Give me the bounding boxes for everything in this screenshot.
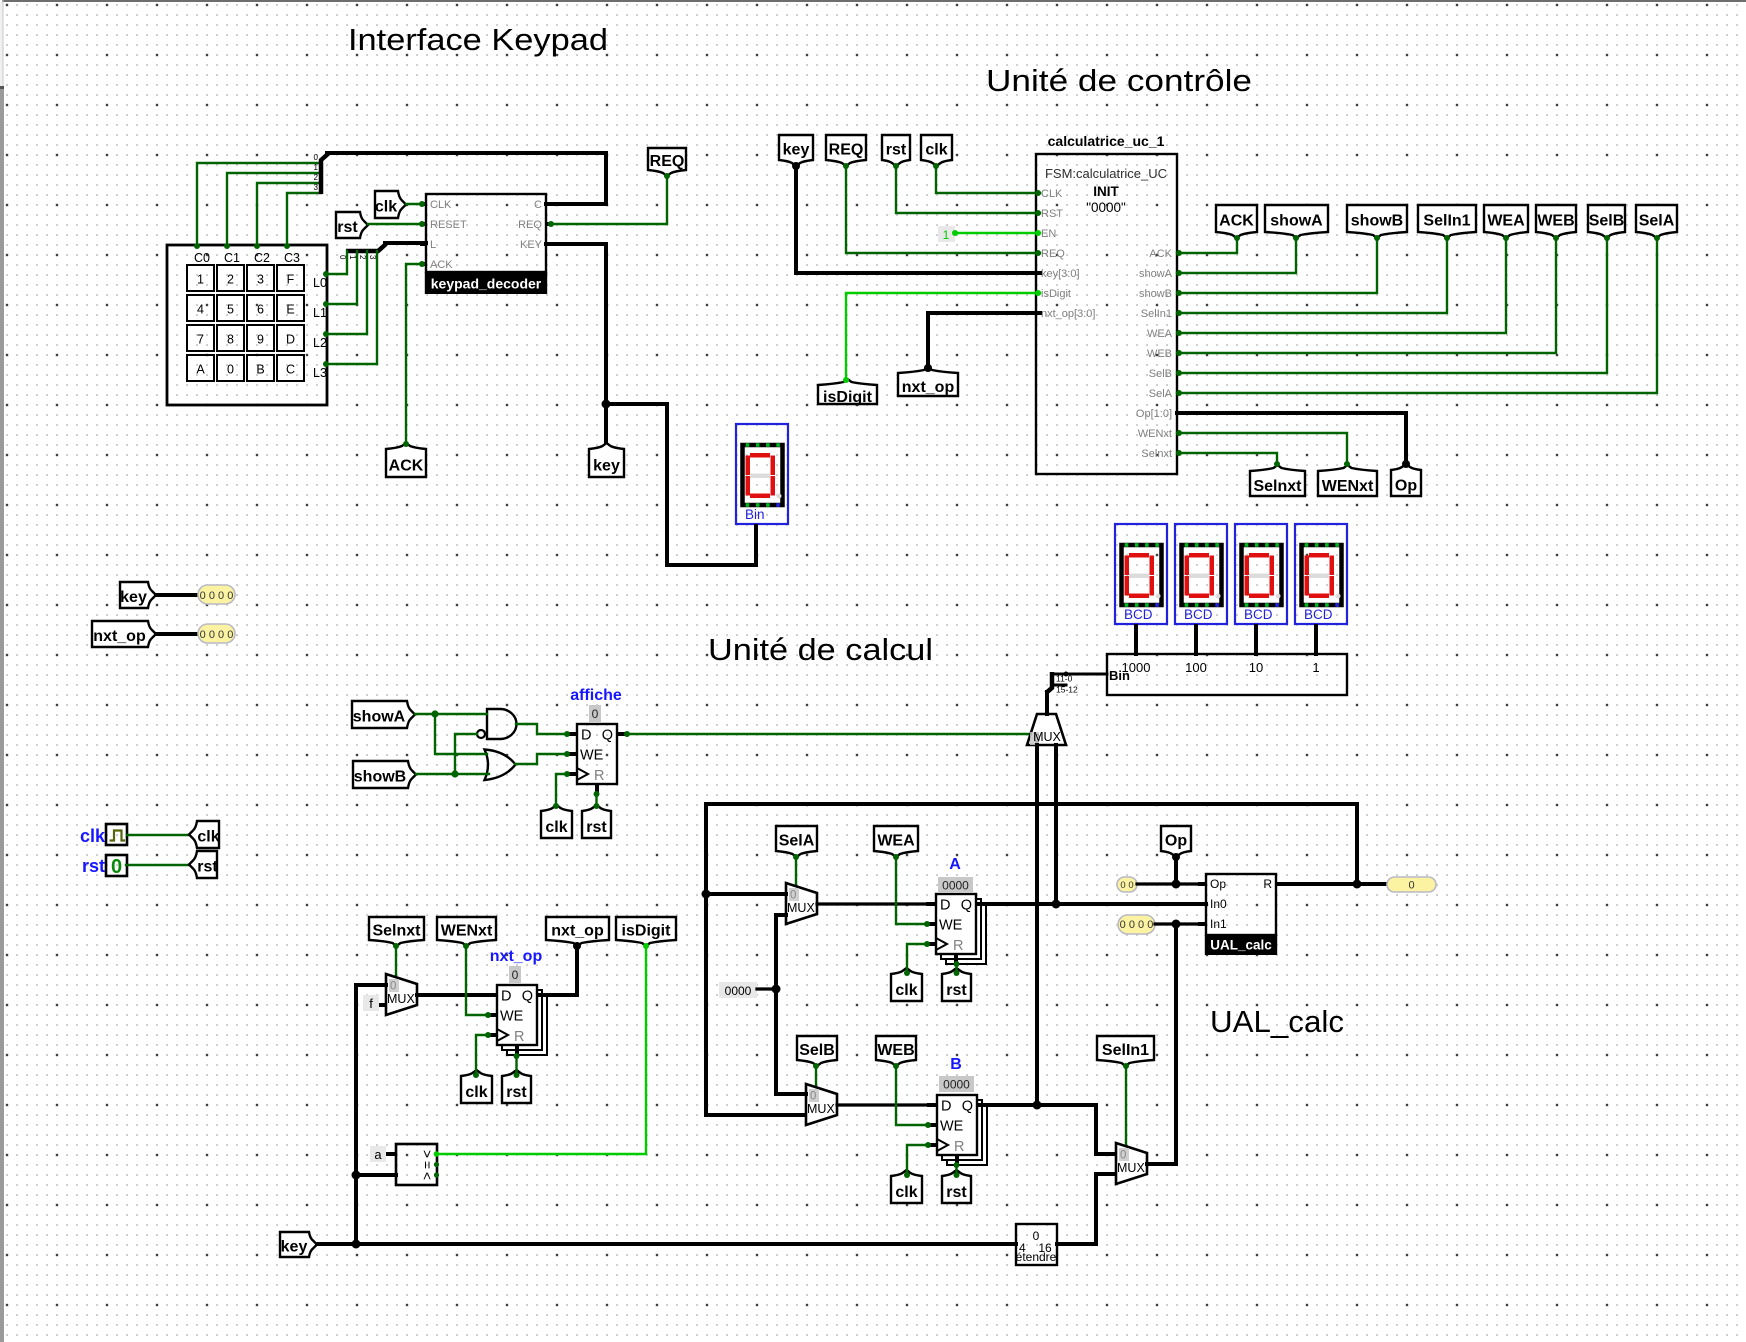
scrollbar left track [0, 0, 3, 88]
svg-text:Bin: Bin [745, 507, 765, 522]
svg-text:2: 2 [314, 173, 319, 182]
svg-text:WENxt: WENxt [1322, 478, 1374, 495]
svg-text:BCD: BCD [1184, 607, 1213, 622]
bus MUX SelIn1 out to UAL In1 [1147, 924, 1176, 1164]
svg-text:rst: rst [886, 142, 907, 159]
title Unite de calcul [708, 632, 933, 667]
FSM left pin EN [1041, 228, 1056, 240]
svg-text:R: R [1263, 877, 1272, 891]
bus MUX A out to D [817, 902, 926, 905]
FSM input dot 0 [1035, 190, 1041, 196]
wire FSM WEB out [1177, 238, 1556, 353]
svg-text:A: A [196, 363, 205, 377]
svg-text:0: 0 [592, 707, 599, 721]
keypad row label L2 [313, 336, 327, 350]
svg-text:EN: EN [1041, 228, 1056, 240]
input pin REQ (FSM) [826, 135, 866, 166]
FSM input dot 1 [1035, 210, 1041, 216]
svg-text:FSM:calculatrice_UC: FSM:calculatrice_UC [1045, 166, 1167, 181]
wire clock to clk pin [127, 834, 188, 836]
output pin clk (source) [189, 821, 220, 848]
svg-text:0: 0 [390, 981, 396, 993]
constant a stub [386, 1152, 396, 1156]
svg-text:clk: clk [197, 829, 219, 846]
svg-text:Q: Q [522, 989, 533, 1005]
svg-text:ACK: ACK [430, 259, 453, 271]
wire column C1 to splitter [227, 173, 321, 245]
UAL pin Op [1210, 877, 1226, 891]
wire WENxt to nxt_op WE [466, 946, 487, 1015]
junction showA [431, 710, 438, 717]
keypad_decoder pin C [534, 199, 542, 211]
comparator out eq dot [434, 1162, 439, 1167]
FSM right pin SelA [1149, 388, 1173, 400]
keypad_decoder pin CLK [430, 199, 452, 211]
FSM right pin Op[1:0] [1136, 408, 1172, 420]
register affiche [567, 724, 627, 794]
pin dot REQ fsm [843, 163, 849, 169]
dot B R [954, 1162, 960, 1168]
svg-text:R: R [594, 768, 604, 784]
wire rst to affiche R [595, 794, 597, 805]
svg-text:MUX: MUX [387, 992, 415, 1006]
svg-text:Selnxt: Selnxt [1253, 478, 1302, 495]
FSM left pin isDigit [1041, 288, 1071, 300]
constant 0 source (rst) [106, 855, 127, 878]
svg-text:nxt_op: nxt_op [93, 628, 146, 645]
input pin rst (affiche) [582, 805, 611, 838]
output pin WENxt (calc) [437, 917, 496, 946]
svg-text:SelB: SelB [1589, 213, 1625, 230]
pin dot nxt_op calc [573, 942, 581, 950]
svg-text:Selnxt: Selnxt [1141, 448, 1172, 460]
bus loop to MUX A in0 [706, 892, 786, 896]
probe In1 0000 [1118, 915, 1155, 934]
svg-text:Selnxt: Selnxt [372, 923, 421, 940]
7-segment display BCD2 [1235, 524, 1287, 624]
svg-text:BCD: BCD [1124, 607, 1153, 622]
svg-text:clk: clk [925, 142, 947, 159]
bus FSM Op[1:0] out [1177, 413, 1406, 464]
svg-text:1: 1 [197, 273, 204, 287]
svg-text:9: 9 [257, 333, 264, 347]
output pin Selnxt (FSM) [1250, 465, 1305, 496]
bus nxt_op Q to pin [547, 946, 577, 995]
svg-text:0: 0 [1120, 1150, 1126, 1162]
FSM output dot Selnxt [1176, 450, 1182, 456]
junction splitter branch [1064, 672, 1069, 677]
etendre label 4 [1019, 1241, 1026, 1255]
keypad button D [277, 325, 304, 351]
FSM right pin Selnxt [1141, 448, 1172, 460]
wire rst to decoder RESET [368, 223, 421, 225]
keypad button C [277, 355, 304, 381]
svg-text:0: 0 [111, 856, 122, 878]
svg-text:C: C [286, 363, 295, 377]
wire affiche Q to calc MUX select [627, 733, 1029, 735]
svg-text:D: D [940, 898, 950, 914]
FSM calculatrice_uc_1 body [1036, 154, 1177, 474]
junction key comparator [352, 1171, 361, 1180]
input pin key (FSM) [779, 135, 813, 166]
comparator out gt dot [434, 1151, 440, 1157]
keypad button F [277, 265, 304, 291]
svg-text:C: C [534, 199, 542, 211]
svg-text:showB: showB [1351, 213, 1403, 230]
svg-text:C0: C0 [194, 251, 210, 265]
keypad button A [187, 355, 214, 381]
wire isDigit to FSM [846, 293, 1040, 379]
label affiche blue [570, 687, 622, 704]
wire FSM showA out [1177, 238, 1296, 273]
wire AND out to D [516, 724, 566, 734]
value A 0000 [938, 877, 973, 893]
svg-text:rst: rst [586, 819, 607, 836]
svg-text:WEA: WEA [1487, 213, 1525, 230]
keypad button 8 [217, 325, 244, 351]
FSM init value text [1086, 200, 1126, 215]
wire showB to OR [416, 773, 489, 775]
svg-text:MUX: MUX [807, 1102, 835, 1116]
keypad top pin C1 [224, 243, 230, 249]
pin dot rst nxtop [514, 1072, 520, 1078]
pin dot SelIn1 [1444, 235, 1450, 241]
UAL left stubs [1198, 884, 1206, 924]
svg-text:nxt_op: nxt_op [490, 948, 543, 965]
bus const 0000 stub [757, 987, 776, 990]
pin dot nxt_op fsm [924, 364, 932, 372]
wire rst to A R [955, 964, 957, 972]
FSM right pin WENxt [1138, 428, 1172, 440]
FSM output dot showA [1176, 270, 1182, 276]
title Interface Keypad [348, 22, 608, 57]
svg-text:0: 0 [227, 363, 234, 377]
pin dot Op out [1402, 460, 1410, 468]
svg-text:RESET: RESET [430, 219, 467, 231]
bus BCD2 to Bin box [1254, 626, 1258, 654]
svg-text:MUX: MUX [1117, 1161, 1145, 1175]
MUX B [806, 1084, 837, 1125]
dot nxt_op R [514, 1053, 520, 1059]
dot B clk [925, 1142, 931, 1148]
FSM left pin nxt_op[3:0] [1041, 308, 1095, 320]
wire clk to B [907, 1145, 927, 1174]
svg-text:1: 1 [943, 228, 950, 242]
svg-text:Op: Op [1165, 833, 1187, 850]
output pin Op (calc) [1161, 826, 1191, 857]
svg-text:WEA: WEA [1147, 328, 1173, 340]
output pin key (below decoder) [589, 443, 624, 477]
keypad column label C1 [224, 251, 240, 265]
svg-text:15-12: 15-12 [1056, 685, 1078, 695]
keypad row label L3 [313, 366, 327, 380]
UAL right stub [1276, 882, 1284, 886]
pin dot rst affiche [594, 803, 600, 809]
svg-text:1: 1 [348, 255, 357, 260]
svg-text:L3: L3 [313, 366, 327, 380]
svg-text:R: R [954, 1139, 964, 1155]
value nxt_op 0 [509, 966, 521, 983]
wire FSM SelB out [1177, 238, 1607, 373]
svg-text:clk: clk [465, 1084, 487, 1101]
bus const 0000 down to MUX B in0 [776, 989, 806, 1094]
7-segment display Bin [736, 424, 788, 524]
wire WEB to B WE [896, 1066, 927, 1125]
svg-text:nxt_op: nxt_op [551, 923, 604, 940]
FSM header text [1045, 166, 1167, 181]
output pin showA [1265, 205, 1328, 238]
svg-text:WE: WE [939, 918, 963, 934]
svg-text:B: B [256, 363, 264, 377]
wire FSM ACK out [1177, 238, 1237, 253]
svg-text:key[3:0]: key[3:0] [1041, 268, 1080, 280]
register nxt_op [487, 985, 547, 1055]
svg-text:WEB: WEB [1147, 348, 1172, 360]
FSM output dot showB [1176, 290, 1182, 296]
FSM output dot WEB [1176, 350, 1182, 356]
svg-text:SelA: SelA [1149, 388, 1173, 400]
svg-text:A: A [949, 856, 961, 873]
svg-text:3: 3 [257, 273, 264, 287]
MUX calc display [1027, 714, 1066, 746]
dot A WE [924, 921, 930, 927]
svg-text:C3: C3 [284, 251, 300, 265]
svg-text:WEB: WEB [877, 1042, 914, 1059]
svg-text:3: 3 [314, 183, 319, 192]
input pin clk (FSM) [921, 135, 952, 166]
input pin rst (FSM) [882, 135, 910, 166]
pin dot clk fsm [933, 163, 939, 169]
FSM right pin WEB [1147, 348, 1172, 360]
bus MUX nxt_op out to D [417, 993, 487, 997]
svg-text:SelIn1: SelIn1 [1102, 1042, 1149, 1059]
svg-text:E: E [286, 303, 294, 317]
bus key to comparator b [356, 1173, 396, 1177]
probe key 0000 [198, 585, 235, 604]
svg-text:WENxt: WENxt [441, 923, 493, 940]
comparator gt symbol [420, 1150, 436, 1158]
input pin showA [352, 701, 415, 728]
input pin rst (A) [942, 968, 971, 1001]
svg-text:SelB: SelB [799, 1042, 835, 1059]
svg-text:rst: rst [946, 982, 967, 999]
input pin nxt_op (FSM) [898, 367, 958, 396]
svg-text:R: R [514, 1029, 524, 1045]
svg-text:MUX: MUX [1033, 730, 1061, 744]
FSM input dot isDigit [1035, 290, 1041, 296]
junction const 0000 [772, 985, 781, 994]
svg-text:f: f [369, 996, 373, 1011]
keypad button 4 [187, 295, 214, 321]
svg-text:D: D [501, 989, 511, 1005]
bus UAL R out [1284, 882, 1387, 886]
output pin nxt_op (calc) [546, 917, 609, 946]
FSM right pin SelB [1149, 368, 1172, 380]
wire WEA to A WE [896, 857, 926, 924]
svg-text:0 0 0 0: 0 0 0 0 [200, 590, 234, 602]
pin dot WEB [1553, 235, 1559, 241]
FSM INIT text [1093, 184, 1119, 199]
UAL pin In0 [1210, 897, 1227, 911]
svg-text:isDigit: isDigit [823, 389, 873, 406]
comparator out lt dot [434, 1172, 439, 1177]
svg-text:ACK: ACK [389, 457, 424, 474]
bus nxt_op to probe [156, 632, 198, 636]
wire row L3 to splitter [326, 251, 377, 364]
wire constant1 to FSM EN [955, 232, 1040, 234]
wire SelB to MUX B select [815, 1066, 817, 1091]
value affiche 0 [589, 705, 601, 722]
bus feedback loop [706, 804, 1357, 1115]
svg-text:WEA: WEA [877, 833, 915, 850]
svg-text:key: key [783, 142, 810, 159]
pin dot SelB [1604, 235, 1610, 241]
keypad matrix body [167, 245, 327, 405]
pin dot WEA [1503, 235, 1509, 241]
pin dot WENxt calc [463, 943, 469, 949]
keypad_decoder pin KEY [520, 239, 543, 251]
svg-text:key: key [593, 457, 620, 474]
input pin rst (keypad) [336, 212, 368, 238]
keypad row label L1 [313, 306, 327, 320]
svg-text:nxt_op[3:0]: nxt_op[3:0] [1041, 308, 1095, 320]
bus calc MUX out [1045, 692, 1049, 714]
svg-text:SelA: SelA [1639, 213, 1675, 230]
FSM input dot EN [1035, 230, 1041, 236]
pin dot ACK [1234, 235, 1240, 241]
FSM output dot SelIn1 [1176, 310, 1182, 316]
keypad row label L0 [313, 276, 327, 290]
output pin ACK (keypad) [386, 443, 426, 477]
bus BCD1 to Bin box [1194, 626, 1198, 654]
title Unite de controle [986, 63, 1252, 98]
scrollbar left thumb [0, 86, 4, 1342]
bus BCD3 to Bin box [1314, 626, 1318, 654]
svg-text:rst: rst [197, 859, 218, 876]
bus const 0000 up to MUX A in1 [776, 915, 786, 989]
wire clk to nxt_op [476, 1035, 487, 1074]
junction rst-RESET [419, 221, 425, 227]
svg-text:a: a [374, 1147, 382, 1162]
input pin rst (B) [942, 1170, 971, 1203]
bus splitter 15-12 stub [1052, 684, 1066, 687]
label calculatrice_uc_1 [1048, 133, 1165, 149]
svg-text:7: 7 [197, 333, 204, 347]
dot affiche WE [564, 751, 570, 757]
wire rst to B R [955, 1165, 957, 1174]
keypad button 7 [187, 325, 214, 351]
junction REQ stub [548, 221, 554, 227]
svg-text:C2: C2 [254, 251, 270, 265]
FSM output dot WENxt [1176, 430, 1182, 436]
wire FSM SelA out [1177, 238, 1657, 393]
bus Op pin down [1174, 857, 1178, 884]
svg-text:showA: showA [353, 709, 406, 726]
keypad right pin L1 [323, 301, 329, 307]
svg-text:showB: showB [1139, 288, 1172, 300]
bus calc MUX in0 from B [1035, 745, 1039, 1105]
keypad_decoder name bar [425, 272, 547, 294]
keypad top pin C0 [194, 243, 200, 249]
input pin clk (keypad) [375, 191, 406, 218]
pin dot SelA [1654, 235, 1660, 241]
svg-text:0000: 0000 [725, 984, 752, 998]
wire clk to A [907, 944, 926, 972]
svg-text:0: 0 [512, 968, 519, 982]
wire OR out to WE [515, 754, 566, 764]
svg-text:0: 0 [810, 1091, 816, 1103]
wire row L0 to splitter [326, 251, 347, 274]
input pin clk (B) [891, 1170, 922, 1203]
AND gate (affiche D) [477, 709, 517, 739]
dot nxt_op clk [485, 1032, 491, 1038]
svg-text:Q: Q [961, 898, 972, 914]
keypad column label C0 [194, 251, 210, 265]
wire rst to FSM RST [896, 166, 1040, 213]
keypad_decoder pin REQ [518, 219, 542, 231]
7-segment display BCD3 [1295, 524, 1347, 624]
junction In1 [1172, 920, 1181, 929]
Bin box label 1000 [1122, 660, 1151, 675]
pin dot ACK [403, 441, 409, 447]
constant a [370, 1146, 386, 1162]
output pin WEB [1536, 205, 1576, 238]
wire REQ to FSM REQ [846, 166, 1040, 253]
FSM right pin SelIn1 [1141, 308, 1172, 320]
svg-text:Q: Q [602, 728, 613, 744]
bus key to FSM key[3:0] [796, 166, 1040, 273]
svg-text:L0: L0 [313, 276, 327, 290]
svg-text:REQ: REQ [650, 153, 685, 170]
pin dot showA [1293, 235, 1299, 241]
wire row L1 to splitter [326, 251, 357, 304]
pin dot SelA calc [793, 854, 799, 860]
svg-text:0000: 0000 [942, 879, 969, 893]
svg-text:5: 5 [227, 303, 234, 317]
junction Op [1172, 880, 1181, 889]
output pin WEA [1484, 205, 1528, 238]
etendre label 0 [1033, 1229, 1040, 1243]
constant f stub [379, 1003, 386, 1007]
dot A R [954, 961, 960, 967]
wire SelA to MUX A select [795, 857, 797, 887]
pin dot rst A [954, 970, 960, 976]
keypad button 0 [217, 355, 244, 381]
input pin showB [353, 761, 416, 788]
svg-text:REQ: REQ [518, 219, 542, 231]
svg-text:B: B [950, 1056, 962, 1073]
wire FSM SelIn1 out [1177, 238, 1447, 313]
wire showB branch to AND inv [455, 734, 477, 774]
svg-text:C1: C1 [224, 251, 240, 265]
bin2bcd Bin body [1107, 654, 1347, 695]
output pin rst (source) [189, 851, 218, 878]
wire rst const to rst pin [126, 864, 188, 866]
wire column C0 to splitter [197, 163, 321, 245]
junction key bottom [352, 1240, 361, 1249]
pin dot Op calc [1172, 853, 1180, 861]
svg-text:key: key [281, 1239, 308, 1256]
keypad button 2 [217, 265, 244, 291]
svg-text:L: L [430, 239, 436, 251]
wire ACK up to decoder [406, 264, 421, 443]
input pin key (bottom) [280, 1232, 317, 1257]
input pin isDigit (FSM) [818, 379, 877, 406]
value B 0000 [939, 1076, 974, 1092]
svg-text:UAL_calc: UAL_calc [1210, 938, 1272, 953]
input pin key (probe) [120, 582, 156, 608]
bus key bottom to etendre [317, 1242, 1016, 1246]
